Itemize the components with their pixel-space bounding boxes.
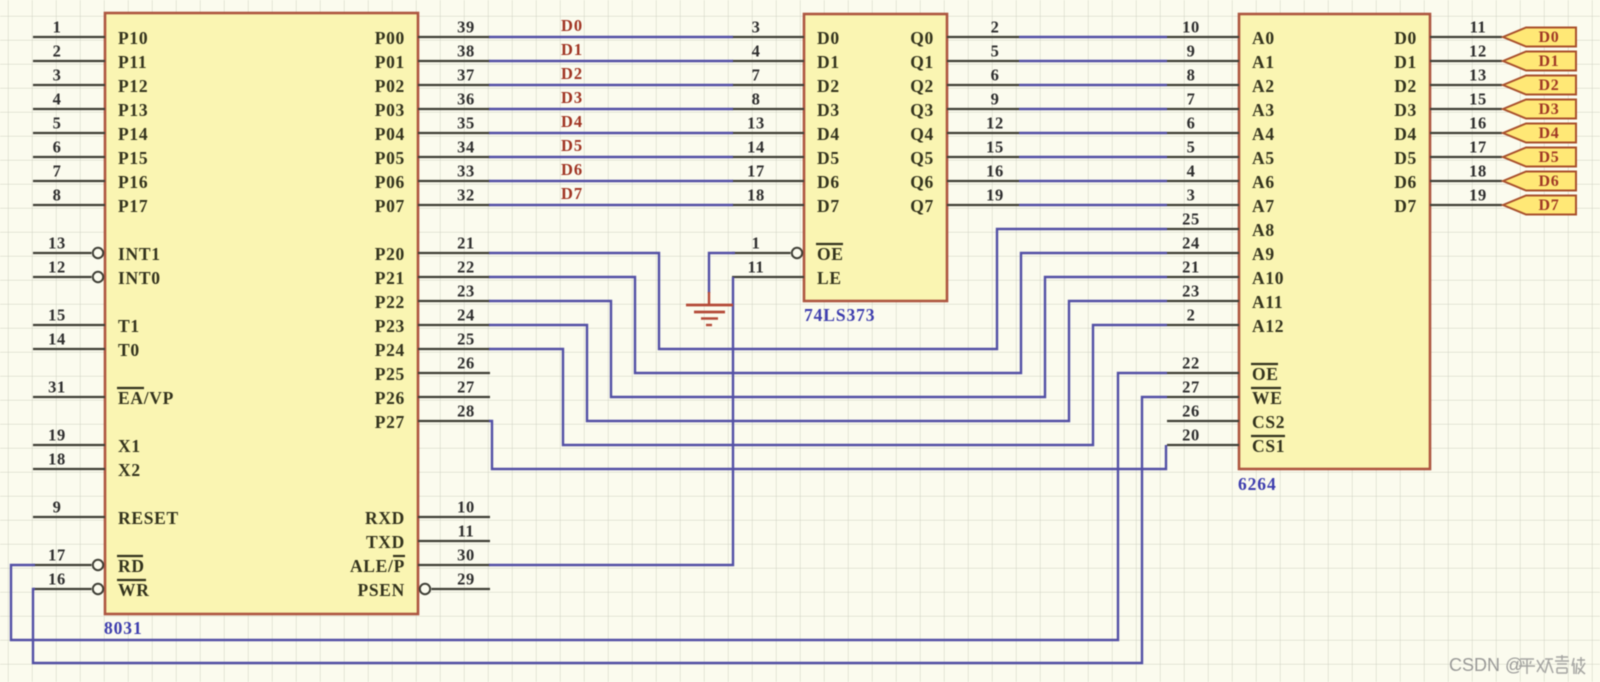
8031 pin 9 RESET	[33, 498, 179, 529]
8031 pin 4 P13	[33, 90, 148, 121]
svg-text:P13: P13	[118, 100, 148, 120]
8031 pin 33 P06	[375, 162, 490, 193]
6264 pin 20 CS1	[1167, 426, 1285, 457]
8031 pin 22 P21	[375, 258, 490, 289]
wire P21 to 6264 A9	[489, 253, 1167, 373]
svg-text:Q3: Q3	[910, 100, 934, 120]
svg-text:22: 22	[1182, 354, 1200, 373]
svg-text:10: 10	[457, 498, 475, 517]
svg-text:D0: D0	[817, 28, 840, 48]
net label D7	[561, 184, 583, 203]
svg-text:D3: D3	[1539, 101, 1560, 118]
svg-text:Q5: Q5	[910, 148, 934, 168]
8031 pin 15 T1	[33, 306, 140, 337]
8031 pin 18 X2	[33, 450, 141, 481]
svg-text:D1: D1	[1539, 53, 1560, 70]
svg-text:X2: X2	[118, 460, 141, 480]
svg-text:12: 12	[1469, 42, 1487, 61]
svg-text:5: 5	[1187, 138, 1196, 157]
6264 pin 16 D4	[1394, 114, 1502, 145]
svg-text:P21: P21	[375, 268, 405, 288]
svg-text:WR: WR	[118, 580, 150, 600]
svg-text:19: 19	[1469, 186, 1487, 205]
svg-text:D7: D7	[1539, 197, 1560, 214]
svg-text:RXD: RXD	[365, 508, 405, 528]
svg-text:1: 1	[752, 234, 761, 253]
svg-text:7: 7	[53, 162, 62, 181]
svg-text:D6: D6	[1394, 172, 1417, 192]
6264 pin 4 A6	[1167, 162, 1275, 193]
svg-text:D2: D2	[561, 64, 583, 83]
6264 pin 22 OE	[1167, 354, 1279, 385]
svg-text:INT1: INT1	[118, 244, 161, 264]
wire 74LS373 Q5 to 6264 A5	[1019, 156, 1167, 158]
svg-text:A4: A4	[1252, 124, 1275, 144]
74LS373 pin 9 Q3	[910, 90, 1019, 121]
svg-text:D3: D3	[561, 88, 583, 107]
6264 pin 9 A1	[1167, 42, 1275, 73]
8031 pin 27 P26	[375, 378, 490, 409]
svg-text:4: 4	[53, 90, 62, 109]
svg-text:23: 23	[457, 282, 475, 301]
8031 pin 24 P23	[375, 306, 490, 337]
svg-text:8: 8	[53, 186, 62, 205]
svg-text:A7: A7	[1252, 196, 1275, 216]
8031 pin 25 P24	[375, 330, 490, 361]
8031 pin 8 P17	[33, 186, 148, 217]
wire P01 to 74LS373 D1 (net D1)	[489, 60, 733, 62]
svg-text:D5: D5	[561, 136, 583, 155]
svg-text:D4: D4	[817, 124, 840, 144]
svg-text:D6: D6	[1539, 173, 1560, 190]
svg-text:25: 25	[1182, 210, 1200, 229]
net label D0	[561, 16, 583, 35]
svg-text:T1: T1	[118, 316, 140, 336]
svg-text:A8: A8	[1252, 220, 1275, 240]
8031 pin 39 P00	[375, 18, 490, 49]
8031 pin 34 P05	[375, 138, 490, 169]
wire P24 to 6264 A12	[489, 325, 1167, 445]
svg-text:X1: X1	[118, 436, 141, 456]
8031 pin 16 WR	[33, 570, 150, 601]
svg-text:25: 25	[457, 330, 475, 349]
6264 reference label	[1238, 474, 1277, 494]
svg-text:6: 6	[991, 66, 1000, 85]
74LS373 pin 11 LE	[732, 258, 842, 289]
svg-text:D4: D4	[561, 112, 583, 131]
svg-text:Q7: Q7	[910, 196, 934, 216]
svg-text:24: 24	[457, 306, 475, 325]
8031 pin 13 INT1	[33, 234, 161, 265]
svg-text:P15: P15	[118, 148, 148, 168]
svg-text:CS1: CS1	[1252, 436, 1285, 456]
svg-text:8: 8	[1187, 66, 1196, 85]
74LS373 pin 1 OE	[732, 234, 844, 265]
svg-text:17: 17	[747, 162, 765, 181]
6264 pin 15 D3	[1394, 90, 1502, 121]
wire P22 to 6264 A10	[489, 277, 1167, 397]
74LS373 pin 5 Q1	[910, 42, 1019, 73]
svg-text:17: 17	[1469, 138, 1487, 157]
svg-text:P16: P16	[118, 172, 148, 192]
svg-text:19: 19	[986, 186, 1004, 205]
8031 pin 3 P12	[33, 66, 148, 97]
svg-text:D2: D2	[1394, 76, 1417, 96]
net label D3	[561, 88, 583, 107]
svg-text:TXD: TXD	[366, 532, 405, 552]
svg-text:5: 5	[53, 114, 62, 133]
svg-text:35: 35	[457, 114, 475, 133]
svg-text:P26: P26	[375, 388, 405, 408]
8031 pin 31 EA/VP	[33, 378, 174, 409]
svg-text:D6: D6	[817, 172, 840, 192]
svg-text:P07: P07	[375, 196, 405, 216]
svg-text:P01: P01	[375, 52, 405, 72]
svg-text:27: 27	[1182, 378, 1200, 397]
svg-text:P25: P25	[375, 364, 405, 384]
svg-text:P05: P05	[375, 148, 405, 168]
net tag D6	[1503, 172, 1576, 191]
svg-text:3: 3	[53, 66, 62, 85]
8031 pin 7 P16	[33, 162, 148, 193]
svg-text:WE: WE	[1252, 388, 1283, 408]
svg-text:D6: D6	[561, 160, 583, 179]
svg-text:OE: OE	[817, 244, 844, 264]
svg-text:LE: LE	[817, 268, 842, 288]
IC 74LS373 latch body	[804, 14, 947, 301]
svg-text:13: 13	[1469, 66, 1487, 85]
6264 pin 8 A2	[1167, 66, 1275, 97]
svg-text:D7: D7	[1394, 196, 1417, 216]
8031 pin 38 P01	[375, 42, 490, 73]
svg-text:13: 13	[48, 234, 66, 253]
svg-text:15: 15	[48, 306, 66, 325]
svg-text:D2: D2	[1539, 77, 1560, 94]
74LS373 pin 15 Q5	[910, 138, 1019, 169]
svg-text:11: 11	[458, 522, 475, 541]
wire P02 to 74LS373 D2 (net D2)	[489, 84, 733, 86]
74LS373 pin 12 Q4	[910, 114, 1019, 145]
74LS373 pin 7 D2	[732, 66, 840, 97]
svg-text:OE: OE	[1252, 364, 1279, 384]
6264 pin 17 D5	[1394, 138, 1502, 169]
svg-text:7: 7	[1187, 90, 1196, 109]
wire WR to 6264 WE	[33, 397, 1167, 663]
net tag D5	[1503, 148, 1576, 167]
svg-text:16: 16	[1469, 114, 1487, 133]
8031 pin 30 ALE/P	[350, 546, 490, 577]
8031 pin 35 P04	[375, 114, 490, 145]
ground	[686, 292, 733, 325]
74LS373 pin 16 Q6	[910, 162, 1019, 193]
svg-text:6: 6	[53, 138, 62, 157]
svg-text:P23: P23	[375, 316, 405, 336]
6264 pin 25 A8	[1167, 210, 1275, 241]
svg-text:16: 16	[986, 162, 1004, 181]
8031 pin 26 P25	[375, 354, 490, 385]
6264 pin 26 CS2	[1167, 402, 1285, 433]
svg-text:A9: A9	[1252, 244, 1275, 264]
svg-text:P27: P27	[375, 412, 405, 432]
6264 pin 11 D0	[1394, 18, 1502, 49]
svg-text:15: 15	[1469, 90, 1487, 109]
svg-text:A3: A3	[1252, 100, 1275, 120]
svg-text:P10: P10	[118, 28, 148, 48]
8031 pin 37 P02	[375, 66, 490, 97]
wire 74LS373 Q0 to 6264 A0	[1019, 36, 1167, 38]
wire P03 to 74LS373 D3 (net D3)	[489, 108, 733, 110]
svg-text:18: 18	[747, 186, 765, 205]
wire 74LS373 Q6 to 6264 A6	[1019, 180, 1167, 182]
svg-text:Q0: Q0	[910, 28, 934, 48]
svg-text:P12: P12	[118, 76, 148, 96]
svg-text:A12: A12	[1252, 316, 1284, 336]
net label D5	[561, 136, 583, 155]
svg-text:D5: D5	[817, 148, 840, 168]
6264 pin 19 D7	[1394, 186, 1502, 217]
svg-text:RD: RD	[118, 556, 145, 576]
svg-text:32: 32	[457, 186, 475, 205]
8031 pin 10 RXD	[365, 498, 490, 529]
wire ALE/P to 74LS373 LE	[489, 277, 733, 565]
8031 pin 2 P11	[33, 42, 147, 73]
svg-text:P11: P11	[118, 52, 147, 72]
svg-text:2: 2	[53, 42, 62, 61]
6264 pin 12 D1	[1394, 42, 1502, 73]
svg-text:P04: P04	[375, 124, 405, 144]
6264 pin 13 D2	[1394, 66, 1502, 97]
svg-text:A2: A2	[1252, 76, 1275, 96]
svg-text:CS2: CS2	[1252, 412, 1285, 432]
net tag D0	[1503, 28, 1576, 47]
svg-text:11: 11	[1470, 18, 1487, 37]
IC 8031 microcontroller body	[105, 13, 418, 614]
wire P05 to 74LS373 D5 (net D5)	[489, 156, 733, 158]
74LS373 pin 2 Q0	[910, 18, 1019, 49]
wire 74LS373 Q1 to 6264 A1	[1019, 60, 1167, 62]
8031 pin 19 X1	[33, 426, 141, 457]
svg-text:Q2: Q2	[910, 76, 934, 96]
net label D6	[561, 160, 583, 179]
svg-text:26: 26	[1182, 402, 1200, 421]
svg-text:A6: A6	[1252, 172, 1275, 192]
svg-text:A0: A0	[1252, 28, 1275, 48]
svg-text:Q6: Q6	[910, 172, 934, 192]
net tag D1	[1503, 52, 1576, 71]
svg-text:16: 16	[48, 570, 66, 589]
8031 pin 36 P03	[375, 90, 490, 121]
svg-text:P22: P22	[375, 292, 405, 312]
wire 74LS373 Q7 to 6264 A7	[1019, 204, 1167, 206]
net tag D7	[1503, 196, 1576, 215]
svg-text:2: 2	[991, 18, 1000, 37]
svg-text:37: 37	[457, 66, 475, 85]
svg-text:12: 12	[48, 258, 66, 277]
svg-text:1: 1	[53, 18, 62, 37]
svg-text:23: 23	[1182, 282, 1200, 301]
svg-text:4: 4	[752, 42, 761, 61]
svg-text:17: 17	[48, 546, 66, 565]
svg-text:D3: D3	[1394, 100, 1417, 120]
svg-text:3: 3	[1187, 186, 1196, 205]
svg-text:19: 19	[48, 426, 66, 445]
8031 reference label	[104, 618, 143, 638]
74LS373 pin 14 D5	[732, 138, 840, 169]
svg-text:9: 9	[991, 90, 1000, 109]
svg-text:36: 36	[457, 90, 475, 109]
svg-text:22: 22	[457, 258, 475, 277]
svg-text:A1: A1	[1252, 52, 1275, 72]
svg-text:2: 2	[1187, 306, 1196, 325]
svg-text:CSDN @: CSDN @	[1449, 655, 1523, 675]
svg-text:PSEN: PSEN	[357, 580, 405, 600]
wire P00 to 74LS373 D0 (net D0)	[489, 36, 733, 38]
svg-text:D0: D0	[1539, 29, 1560, 46]
wire 74LS373 Q3 to 6264 A3	[1019, 108, 1167, 110]
6264 pin 10 A0	[1167, 18, 1275, 49]
6264 pin 18 D6	[1394, 162, 1502, 193]
svg-text:5: 5	[991, 42, 1000, 61]
8031 pin 14 T0	[33, 330, 140, 361]
IC 6264 SRAM body	[1239, 14, 1430, 469]
svg-text:D1: D1	[561, 40, 583, 59]
svg-text:21: 21	[1182, 258, 1200, 277]
6264 pin 3 A7	[1167, 186, 1275, 217]
svg-text:24: 24	[1182, 234, 1200, 253]
svg-text:14: 14	[48, 330, 66, 349]
8031 pin 11 TXD	[366, 522, 490, 553]
svg-text:Q4: Q4	[910, 124, 934, 144]
net tag D3	[1503, 100, 1576, 119]
svg-text:D7: D7	[561, 184, 583, 203]
svg-text:3: 3	[752, 18, 761, 37]
svg-text:6264: 6264	[1238, 474, 1277, 494]
svg-text:P24: P24	[375, 340, 405, 360]
svg-text:EA/VP: EA/VP	[118, 388, 174, 408]
svg-text:15: 15	[986, 138, 1004, 157]
svg-text:P14: P14	[118, 124, 148, 144]
8031 pin 1 P10	[33, 18, 148, 49]
svg-text:33: 33	[457, 162, 475, 181]
svg-text:Q1: Q1	[910, 52, 934, 72]
8031 pin 12 INT0	[33, 258, 161, 289]
svg-text:39: 39	[457, 18, 475, 37]
svg-text:4: 4	[1187, 162, 1196, 181]
74LS373 pin 17 D6	[732, 162, 840, 193]
6264 pin 21 A10	[1167, 258, 1284, 289]
wire P07 to 74LS373 D7 (net D7)	[489, 204, 733, 206]
svg-text:21: 21	[457, 234, 475, 253]
svg-text:7: 7	[752, 66, 761, 85]
svg-text:D5: D5	[1539, 149, 1560, 166]
svg-text:P06: P06	[375, 172, 405, 192]
wire 74LS373 OE to ground	[709, 253, 735, 293]
74LS373 pin 6 Q2	[910, 66, 1019, 97]
8031 pin 29 PSEN	[357, 570, 490, 601]
wire P06 to 74LS373 D6 (net D6)	[489, 180, 733, 182]
svg-text:9: 9	[1187, 42, 1196, 61]
svg-text:11: 11	[748, 258, 765, 277]
svg-text:12: 12	[986, 114, 1004, 133]
svg-text:P03: P03	[375, 100, 405, 120]
watermark CSDN	[1449, 655, 1585, 675]
svg-text:20: 20	[1182, 426, 1200, 445]
svg-text:27: 27	[457, 378, 475, 397]
svg-text:26: 26	[457, 354, 475, 373]
6264 pin 5 A5	[1167, 138, 1275, 169]
svg-text:P17: P17	[118, 196, 148, 216]
8031 pin 28 P27	[375, 402, 490, 433]
svg-text:9: 9	[53, 498, 62, 517]
8031 pin 32 P07	[375, 186, 490, 217]
net label D2	[561, 64, 583, 83]
svg-text:P20: P20	[375, 244, 405, 264]
svg-text:D1: D1	[817, 52, 840, 72]
74LS373 pin 18 D7	[732, 186, 840, 217]
74LS373 reference label	[804, 305, 875, 325]
svg-text:D2: D2	[817, 76, 840, 96]
8031 pin 6 P15	[33, 138, 148, 169]
svg-text:D3: D3	[817, 100, 840, 120]
6264 pin 27 WE	[1167, 378, 1283, 409]
6264 pin 6 A4	[1167, 114, 1275, 145]
svg-text:6: 6	[1187, 114, 1196, 133]
svg-text:38: 38	[457, 42, 475, 61]
svg-text:8: 8	[752, 90, 761, 109]
svg-text:P00: P00	[375, 28, 405, 48]
svg-text:D4: D4	[1394, 124, 1417, 144]
net tag D4	[1503, 124, 1576, 143]
wire P27 to 6264 CS1	[489, 421, 1166, 469]
74LS373 pin 3 D0	[732, 18, 840, 49]
svg-text:ALE/P: ALE/P	[350, 556, 405, 576]
svg-text:29: 29	[457, 570, 475, 589]
svg-text:18: 18	[48, 450, 66, 469]
svg-text:D0: D0	[1394, 28, 1417, 48]
svg-text:D7: D7	[817, 196, 840, 216]
svg-text:18: 18	[1469, 162, 1487, 181]
wire 74LS373 Q4 to 6264 A4	[1019, 132, 1167, 134]
wire P23 to 6264 A11	[489, 301, 1167, 421]
6264 pin 24 A9	[1167, 234, 1275, 265]
8031 pin 23 P22	[375, 282, 490, 313]
74LS373 pin 13 D4	[732, 114, 840, 145]
net label D1	[561, 40, 583, 59]
svg-text:A11: A11	[1252, 292, 1283, 312]
svg-text:31: 31	[48, 378, 66, 397]
wire P20 to 6264 A8	[489, 229, 1167, 349]
svg-text:A5: A5	[1252, 148, 1275, 168]
net tag D2	[1503, 76, 1576, 95]
svg-text:74LS373: 74LS373	[804, 305, 875, 325]
svg-text:RESET: RESET	[118, 508, 179, 528]
svg-text:34: 34	[457, 138, 475, 157]
svg-text:INT0: INT0	[118, 268, 161, 288]
svg-text:P02: P02	[375, 76, 405, 96]
wire RD to 6264 OE	[11, 373, 1167, 640]
6264 pin 7 A3	[1167, 90, 1275, 121]
8031 pin 5 P14	[33, 114, 148, 145]
svg-text:D5: D5	[1394, 148, 1417, 168]
svg-text:30: 30	[457, 546, 475, 565]
svg-text:D1: D1	[1394, 52, 1417, 72]
wire 74LS373 Q2 to 6264 A2	[1019, 84, 1167, 86]
svg-text:14: 14	[747, 138, 765, 157]
6264 pin 2 A12	[1167, 306, 1284, 337]
6264 pin 23 A11	[1167, 282, 1283, 313]
svg-text:28: 28	[457, 402, 475, 421]
wire P04 to 74LS373 D4 (net D4)	[489, 132, 733, 134]
